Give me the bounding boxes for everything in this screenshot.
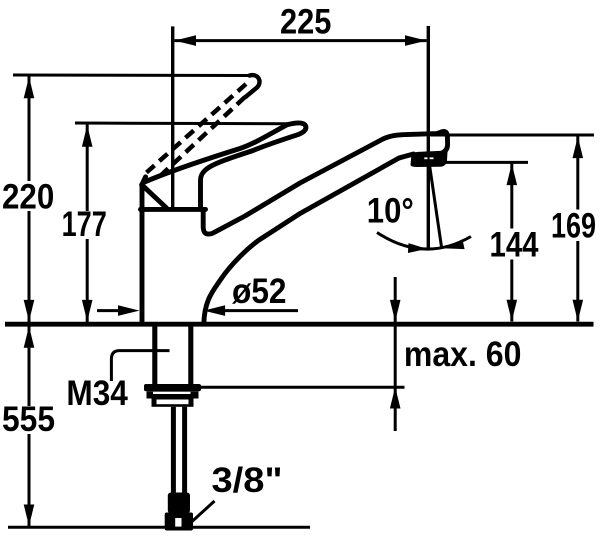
svg-text:220: 220 [2, 177, 54, 216]
svg-text:177: 177 [62, 205, 107, 244]
svg-text:3/8": 3/8" [212, 461, 283, 500]
svg-text:ø52: ø52 [232, 272, 287, 311]
svg-text:M34: M34 [66, 374, 128, 413]
svg-text:144: 144 [490, 225, 539, 264]
svg-text:10°: 10° [367, 191, 414, 230]
svg-text:max. 60: max. 60 [404, 335, 522, 374]
svg-text:555: 555 [2, 400, 55, 439]
svg-text:169: 169 [551, 207, 596, 246]
svg-text:225: 225 [280, 3, 331, 42]
